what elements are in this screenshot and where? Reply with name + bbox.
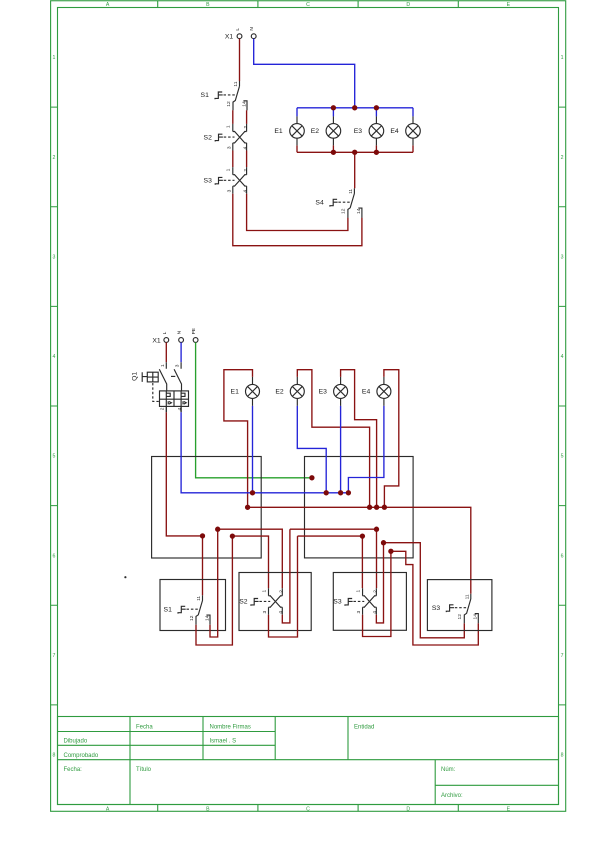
lamp E1 (lower circuit) bbox=[231, 377, 260, 406]
wire N bus to junction boxes bbox=[181, 412, 348, 493]
wire S3-3 to S3b-14 bbox=[391, 551, 478, 645]
svg-text:Fecha: Fecha bbox=[136, 724, 153, 730]
wire PE: X1 to junction box 2 bbox=[196, 342, 312, 477]
node S3-3 riser bbox=[388, 549, 393, 554]
svg-text:E2: E2 bbox=[311, 128, 320, 135]
wire S1-14 return up bbox=[210, 529, 218, 637]
wire S3-3 to S4-14 bbox=[233, 194, 362, 246]
switch S1 (two-way, lower) bbox=[164, 595, 211, 624]
svg-text:C: C bbox=[306, 2, 310, 8]
wire E4 feed bbox=[384, 370, 399, 508]
title block bbox=[58, 717, 559, 805]
svg-text:E: E bbox=[507, 2, 511, 8]
wire S2-4 to S3-2 node bbox=[290, 528, 377, 530]
wire node down to S3-2 bbox=[376, 529, 378, 588]
svg-text:3: 3 bbox=[226, 146, 232, 149]
wire node to S2-1 bbox=[232, 536, 268, 588]
svg-text:3: 3 bbox=[262, 610, 268, 613]
svg-text:1: 1 bbox=[561, 55, 564, 61]
svg-text:1: 1 bbox=[261, 589, 267, 592]
node junction bbox=[331, 150, 336, 155]
svg-text:12: 12 bbox=[189, 615, 195, 621]
wire S2-4 to S3-2 bbox=[246, 151, 248, 168]
svg-text:1: 1 bbox=[355, 589, 361, 592]
svg-text:Q1: Q1 bbox=[132, 372, 139, 381]
node junction bbox=[331, 105, 336, 110]
svg-text:S1: S1 bbox=[164, 606, 173, 613]
switch box S3 (two-way, right) bbox=[427, 580, 492, 631]
svg-text:5: 5 bbox=[561, 454, 564, 460]
node bus E1 feed bbox=[245, 505, 250, 510]
svg-text:L: L bbox=[162, 331, 168, 334]
lamp E4 (lower circuit) bbox=[362, 377, 391, 406]
node E2 neutral bbox=[324, 490, 329, 495]
wire S3-4 to S3b-12 bbox=[384, 543, 465, 638]
wire L: Q1-2 to S1-11 node bbox=[166, 412, 202, 536]
svg-text:Núm:: Núm: bbox=[441, 767, 456, 773]
svg-text:2: 2 bbox=[160, 407, 166, 410]
svg-text:S2: S2 bbox=[204, 134, 213, 141]
junction box 2 bbox=[305, 457, 414, 558]
wire E1 neutral bbox=[252, 406, 254, 493]
svg-text:Comprobado: Comprobado bbox=[64, 753, 99, 759]
svg-text:1: 1 bbox=[53, 55, 56, 61]
svg-text:X1: X1 bbox=[152, 337, 161, 344]
svg-text:14: 14 bbox=[473, 614, 479, 620]
wire Q1-2 pin stub bbox=[165, 406, 167, 412]
svg-text:Ismael . S: Ismael . S bbox=[210, 739, 237, 745]
svg-text:PE: PE bbox=[191, 328, 197, 334]
wire return bus (top lamps) bbox=[297, 151, 413, 153]
intermediate switch S3 (lower) bbox=[333, 588, 378, 615]
svg-text:E2: E2 bbox=[275, 389, 284, 396]
svg-text:2: 2 bbox=[373, 590, 379, 593]
svg-text:4: 4 bbox=[242, 190, 248, 193]
wire S3-4 up riser bbox=[376, 543, 383, 623]
terminal X1 (lower, L N PE) bbox=[152, 328, 198, 344]
svg-text:5: 5 bbox=[53, 454, 56, 460]
svg-text:N: N bbox=[177, 330, 183, 334]
wire S2-3 to S3-1 node bbox=[298, 535, 363, 537]
svg-text:7: 7 bbox=[53, 653, 56, 659]
svg-text:11: 11 bbox=[464, 594, 470, 599]
wire lamp bottom stub bbox=[296, 145, 298, 152]
svg-text:2: 2 bbox=[243, 169, 249, 172]
svg-text:4: 4 bbox=[53, 354, 56, 360]
svg-text:11: 11 bbox=[348, 189, 354, 194]
svg-text:3: 3 bbox=[175, 364, 181, 367]
svg-text:L: L bbox=[235, 28, 241, 31]
wire lamp top stub bbox=[412, 108, 414, 117]
svg-text:X1: X1 bbox=[225, 34, 234, 41]
svg-text:14: 14 bbox=[356, 208, 362, 214]
wire S2-3 to S3-1 bbox=[232, 151, 234, 168]
svg-text:A: A bbox=[106, 806, 110, 812]
svg-text:12: 12 bbox=[457, 614, 463, 620]
svg-text:E1: E1 bbox=[274, 128, 283, 135]
svg-text:1: 1 bbox=[160, 364, 166, 367]
wire E2 feed bbox=[297, 370, 369, 508]
switch S3 (two-way, right) bbox=[432, 594, 479, 623]
wire Q1-4 pin stub bbox=[180, 406, 182, 412]
svg-text:2: 2 bbox=[243, 125, 249, 128]
wire S2-3 up riser bbox=[269, 536, 298, 637]
wire S3-3 up riser bbox=[363, 551, 391, 636]
wire E1 feed bbox=[224, 370, 253, 508]
wire switched-line bus to S3-11 bbox=[248, 507, 471, 594]
intermediate switch S2 (lower) bbox=[239, 588, 284, 615]
svg-text:11: 11 bbox=[196, 596, 202, 601]
node S1-12 bbox=[230, 533, 235, 538]
node E4 neutral bbox=[346, 490, 351, 495]
svg-text:4: 4 bbox=[561, 354, 564, 360]
switch box S1 bbox=[160, 580, 226, 631]
node S3-4 riser bbox=[381, 540, 386, 545]
intermediate switch S2 bbox=[204, 124, 249, 151]
lamp E2 (top circuit) bbox=[311, 116, 341, 145]
svg-text:2: 2 bbox=[279, 590, 285, 593]
node E1 neutral bbox=[250, 490, 255, 495]
junction box 1 bbox=[152, 457, 262, 559]
svg-text:4: 4 bbox=[372, 611, 378, 614]
node L to S1-11 bbox=[200, 533, 205, 538]
svg-text:8: 8 bbox=[53, 753, 56, 759]
node bus E2 feed bbox=[367, 505, 372, 510]
svg-text:Entidad: Entidad bbox=[354, 724, 374, 730]
node bus E3 feed bbox=[374, 505, 379, 510]
svg-text:S4: S4 bbox=[315, 199, 324, 206]
wire N: X1 to lamp bus bbox=[254, 39, 355, 108]
svg-text:C: C bbox=[306, 806, 310, 812]
svg-text:D: D bbox=[406, 2, 410, 8]
svg-text:6: 6 bbox=[561, 553, 564, 559]
svg-text:6: 6 bbox=[53, 553, 56, 559]
svg-text:S3: S3 bbox=[432, 605, 441, 612]
svg-text:E3: E3 bbox=[354, 128, 363, 135]
wire lamp bottom stub bbox=[375, 145, 377, 152]
wire node to S1-11 bbox=[202, 536, 204, 595]
wire node to S2-2 bbox=[218, 529, 283, 588]
svg-text:B: B bbox=[206, 2, 210, 8]
svg-text:A: A bbox=[106, 2, 110, 8]
lamp E3 (lower circuit) bbox=[319, 377, 348, 406]
node E3 neutral bbox=[338, 490, 343, 495]
svg-text:4: 4 bbox=[242, 146, 248, 149]
node bus E4 feed bbox=[382, 505, 387, 510]
svg-text:E4: E4 bbox=[390, 128, 399, 135]
svg-text:3: 3 bbox=[356, 610, 362, 613]
svg-text:1: 1 bbox=[226, 125, 232, 128]
svg-text:S3: S3 bbox=[204, 178, 213, 185]
svg-text:E1: E1 bbox=[231, 389, 240, 396]
wire S3-4 to S4-12 bbox=[247, 194, 348, 231]
wire S1-12 to S2-1 bbox=[232, 110, 234, 124]
svg-text:E: E bbox=[507, 806, 511, 812]
svg-text:2: 2 bbox=[561, 155, 564, 161]
svg-text:S1: S1 bbox=[201, 92, 210, 99]
svg-text:3: 3 bbox=[226, 189, 232, 192]
wire S4-11 to lamp return bus bbox=[354, 152, 356, 188]
svg-text:Nombre Firmas: Nombre Firmas bbox=[210, 724, 251, 730]
svg-text:Archivo:: Archivo: bbox=[441, 793, 463, 799]
wire E4 neutral bbox=[348, 406, 384, 493]
node junction bbox=[374, 150, 379, 155]
intermediate switch S3 bbox=[204, 167, 249, 194]
switch S4 (two-way) bbox=[315, 188, 362, 217]
svg-text:3: 3 bbox=[53, 255, 56, 261]
svg-text:2: 2 bbox=[53, 155, 56, 161]
svg-text:S3: S3 bbox=[333, 599, 342, 606]
switch box S3 (intermediate) bbox=[333, 573, 406, 631]
wire S1-12 return up bbox=[196, 536, 232, 645]
node PE end bbox=[309, 475, 314, 480]
wire node down to S3-1 bbox=[361, 536, 363, 588]
node junction bbox=[352, 105, 357, 110]
svg-text:12: 12 bbox=[226, 101, 232, 107]
wire E2 neutral bbox=[297, 406, 326, 493]
svg-text:4: 4 bbox=[177, 407, 183, 410]
wire N bus (top lamps) bbox=[297, 107, 413, 109]
svg-text:4: 4 bbox=[278, 611, 284, 614]
svg-text:1: 1 bbox=[226, 168, 232, 171]
svg-text:7: 7 bbox=[561, 653, 564, 659]
svg-text:11: 11 bbox=[233, 81, 239, 86]
svg-text:14: 14 bbox=[241, 101, 247, 107]
svg-text:B: B bbox=[206, 806, 210, 812]
wire S2-4 up riser bbox=[282, 529, 290, 623]
wire lamp top stub bbox=[296, 108, 298, 117]
wire lamp bottom stub bbox=[412, 145, 414, 152]
stray dot mark bbox=[124, 576, 126, 578]
svg-text:Fecha:: Fecha: bbox=[64, 767, 83, 773]
svg-text:12: 12 bbox=[341, 208, 347, 214]
svg-text:E3: E3 bbox=[319, 389, 328, 396]
wire lamp bottom stub bbox=[332, 145, 334, 152]
circuit breaker Q1 (2-pole MCB) bbox=[132, 362, 189, 410]
svg-text:Título: Título bbox=[136, 767, 152, 773]
lamp E3 (top circuit) bbox=[354, 116, 384, 145]
svg-text:8: 8 bbox=[561, 753, 564, 759]
wire E3 neutral bbox=[340, 406, 342, 493]
wire L: X1 to Q1-1 bbox=[165, 342, 167, 362]
svg-text:S2: S2 bbox=[239, 599, 248, 606]
svg-text:N: N bbox=[249, 27, 255, 31]
node junction bbox=[352, 150, 357, 155]
lamp E1 (top circuit) bbox=[274, 116, 304, 145]
node junction bbox=[374, 105, 379, 110]
lamp E4 (top circuit) bbox=[390, 116, 420, 145]
wire lamp top stub bbox=[332, 108, 334, 117]
wire lamp top stub bbox=[375, 108, 377, 117]
wire E3 feed bbox=[341, 370, 377, 508]
wire N: X1 to Q1-3 bbox=[180, 342, 182, 362]
svg-text:E4: E4 bbox=[362, 389, 371, 396]
svg-text:Dibujado: Dibujado bbox=[64, 739, 88, 745]
terminal X1 (top) bbox=[225, 27, 256, 41]
svg-text:3: 3 bbox=[561, 255, 564, 261]
wire S1-14 to S2-2 bbox=[246, 110, 248, 124]
svg-text:14: 14 bbox=[204, 615, 210, 621]
node S1-14 bbox=[215, 527, 220, 532]
node S3-1 bbox=[360, 533, 365, 538]
svg-text:D: D bbox=[406, 806, 410, 812]
node S3-2 bbox=[374, 527, 379, 532]
lamp E2 (lower circuit) bbox=[275, 377, 304, 406]
switch box S2 bbox=[239, 573, 311, 631]
wire L: X1 to S1-11 bbox=[239, 39, 241, 81]
switch S1 (two-way) bbox=[201, 81, 248, 110]
